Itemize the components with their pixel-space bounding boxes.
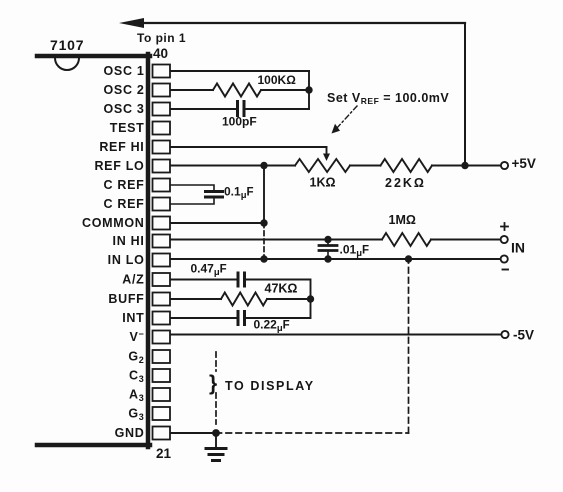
- wire A/Z left: [171, 279, 236, 281]
- pin C REF b: [104, 197, 171, 211]
- pin REF HI: [99, 140, 170, 154]
- pin C REF a: [104, 178, 171, 192]
- wire OSC1 horizontal: [171, 70, 309, 72]
- junction dot IN LO gnd dashed: [405, 255, 412, 262]
- chip U1 7107 body outline: [37, 54, 150, 447]
- wire feedback vertical to pin 1: [464, 23, 466, 166]
- pin OSC 3: [103, 102, 170, 116]
- svg-text:To pin 1: To pin 1: [137, 31, 186, 45]
- wire BUFF right: [267, 298, 311, 300]
- svg-text:C REF: C REF: [104, 197, 145, 211]
- wire REF LO left: [171, 165, 295, 167]
- svg-text:REF HI: REF HI: [99, 140, 144, 154]
- dashed wire COMMON to IN LO: [263, 223, 265, 259]
- potentiometer 1KOhm: [295, 159, 350, 172]
- junction dot IN HI cap: [324, 236, 331, 243]
- wire A/Z right: [246, 280, 311, 300]
- svg-text:BUFF: BUFF: [108, 292, 144, 306]
- svg-text:21: 21: [156, 446, 172, 461]
- resistor 1MOhm: [382, 233, 431, 246]
- pin BUFF: [108, 292, 170, 306]
- resistor 47KOhm: [221, 293, 267, 306]
- terminal IN+: [501, 236, 508, 243]
- svg-text:IN LO: IN LO: [108, 253, 145, 267]
- pin C3: [129, 369, 170, 385]
- svg-text:40: 40: [153, 46, 168, 61]
- svg-text:IN: IN: [511, 240, 525, 256]
- pin IN HI: [113, 234, 170, 248]
- pin REF LO: [94, 159, 170, 173]
- wire IN LO: [171, 258, 501, 260]
- pin G2: [128, 350, 170, 366]
- wire BUFF left: [171, 298, 221, 300]
- wire OSC2 right: [261, 89, 309, 91]
- svg-text:GND: GND: [115, 426, 145, 440]
- wire C REF lower: [171, 198, 214, 205]
- potentiometer wiper arrow: [323, 147, 330, 161]
- resistor 22KOhm: [381, 159, 433, 172]
- wire REF HI: [171, 146, 327, 148]
- svg-text:-5V: -5V: [513, 328, 534, 343]
- pin GND: [115, 426, 170, 440]
- svg-text:1KΩ: 1KΩ: [310, 176, 336, 190]
- wire C REF upper: [171, 185, 214, 191]
- ground stub: [215, 433, 217, 448]
- wire osc right vertical: [308, 71, 310, 109]
- svg-text:C REF: C REF: [104, 178, 145, 192]
- label plus: [501, 223, 508, 230]
- capacitor 100pF: [238, 102, 245, 116]
- svg-text:Set VREF = 100.0mV: Set VREF = 100.0mV: [327, 91, 449, 106]
- terminal +5V: [501, 162, 508, 169]
- junction dot COMMON: [260, 219, 267, 226]
- wire INT left: [171, 317, 236, 319]
- pin TEST: [110, 121, 170, 135]
- pin OSC 2: [103, 83, 170, 97]
- svg-text:7107: 7107: [50, 37, 84, 53]
- wire V- to -5V terminal: [171, 334, 501, 336]
- wire GND: [171, 432, 216, 434]
- svg-text:22KΩ: 22KΩ: [385, 176, 426, 190]
- chip notch: [55, 58, 79, 70]
- dashed wire GND to IN LO vertical: [408, 259, 410, 433]
- capacitor .01uF: [319, 240, 337, 260]
- capacitor 0.1uF: [206, 192, 223, 198]
- wire OSC3 right: [246, 108, 310, 110]
- annotation arrow Set VREF: [332, 106, 358, 134]
- svg-text:47KΩ: 47KΩ: [265, 282, 298, 296]
- svg-text:REF LO: REF LO: [94, 159, 144, 173]
- terminal -5V: [501, 331, 508, 338]
- svg-text:INT: INT: [122, 311, 144, 325]
- capacitor 0.22uF: [238, 312, 245, 325]
- junction dot +5V feedback: [461, 162, 468, 169]
- terminal IN-: [501, 255, 508, 262]
- wire 1M to IN+ terminal: [431, 239, 501, 241]
- label minus: [503, 269, 509, 271]
- pin G3: [128, 407, 170, 423]
- ground symbol: [206, 449, 226, 461]
- dashed wire to display: [215, 352, 217, 424]
- junction dot IN LO cap: [324, 255, 331, 262]
- arrowhead to pin 1: [119, 18, 144, 28]
- pin OSC 1: [103, 64, 170, 78]
- svg-text:1MΩ: 1MΩ: [389, 213, 416, 227]
- wire COMMON: [171, 222, 264, 224]
- junction dot GND: [212, 429, 220, 437]
- wire OSC3 left: [171, 108, 236, 110]
- svg-text:100pF: 100pF: [222, 115, 257, 129]
- wire REF LO to COMMON vertical: [263, 166, 265, 224]
- resistor 100KOhm: [213, 84, 261, 97]
- svg-text:TO DISPLAY: TO DISPLAY: [225, 379, 315, 393]
- svg-text:COMMON: COMMON: [82, 216, 145, 230]
- pin A/Z: [122, 273, 170, 287]
- svg-text:OSC 2: OSC 2: [103, 83, 144, 97]
- pin A3: [129, 388, 170, 404]
- svg-text:TEST: TEST: [110, 121, 145, 135]
- wire IN HI: [171, 239, 382, 241]
- svg-text:OSC 1: OSC 1: [103, 64, 144, 78]
- svg-text:+5V: +5V: [512, 156, 536, 171]
- wire to pin 1 horizontal: [140, 22, 465, 24]
- svg-text:A/Z: A/Z: [122, 273, 144, 287]
- capacitor 0.47uF: [238, 273, 245, 286]
- pin IN LO: [108, 253, 170, 267]
- wire 22K to +5V terminal: [432, 165, 501, 167]
- junction dot IN LO common: [260, 255, 267, 262]
- pin COMMON: [82, 216, 170, 230]
- wire pot to 22K: [350, 165, 381, 167]
- pin INT: [122, 311, 170, 325]
- wire OSC2 left: [171, 89, 213, 91]
- svg-text:100KΩ: 100KΩ: [258, 73, 297, 87]
- svg-text:OSC 3: OSC 3: [103, 102, 144, 116]
- wire INT right: [246, 299, 311, 318]
- dashed wire GND to IN LO horizontal: [216, 432, 409, 434]
- svg-text:}: }: [209, 372, 217, 395]
- junction dot BUFF: [307, 295, 314, 302]
- junction dot REF LO / common link: [260, 162, 267, 169]
- junction dot OSC2: [305, 86, 312, 93]
- svg-text:IN HI: IN HI: [113, 234, 145, 248]
- pin V-: [129, 329, 170, 344]
